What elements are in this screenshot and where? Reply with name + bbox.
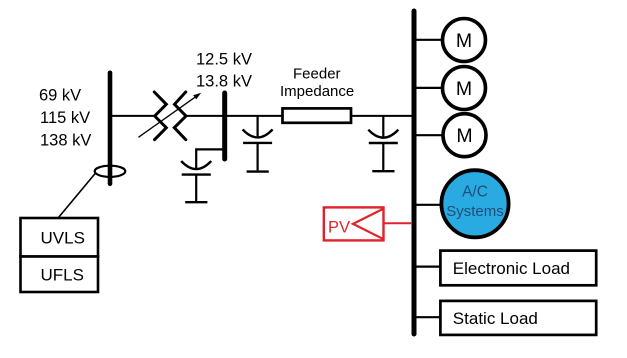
- wire bus 3 to motor M3: [415, 134, 444, 136]
- wire transformer to bus 2: [186, 115, 226, 117]
- capacitor C1: [181, 161, 211, 202]
- motor M3: [443, 114, 486, 157]
- transformer T1 right winding: [174, 92, 186, 140]
- svg-text:138 kV: 138 kV: [40, 131, 91, 149]
- bus 1 (69-138 kV bus): [108, 73, 113, 184]
- feeder impedance box: [283, 108, 352, 122]
- wire bus 3 to A/C systems load: [415, 204, 442, 206]
- bus 2 (12.5-13.8 kV bus): [222, 93, 227, 159]
- wire bus 3 to motor M2: [415, 87, 443, 89]
- wire bus 3 to electronic load: [415, 266, 441, 268]
- svg-text:Static Load: Static Load: [453, 309, 538, 328]
- electronic load box: [440, 251, 596, 286]
- svg-text:12.5 kV: 12.5 kV: [196, 50, 252, 68]
- bus 3 (load bus): [412, 11, 417, 334]
- motor M1: [443, 19, 486, 62]
- wire bus 3 to motor M1: [415, 39, 443, 41]
- svg-text:M: M: [456, 30, 472, 52]
- svg-text:M: M: [456, 125, 472, 147]
- PV arrowhead: [353, 209, 384, 240]
- wire bus 3 to static load: [415, 316, 441, 318]
- svg-text:Impedance: Impedance: [280, 83, 354, 100]
- wire feeder impedance to bus 3: [351, 115, 414, 117]
- wire PV to bus 3 (red): [384, 222, 413, 224]
- A/C systems load: [441, 170, 508, 237]
- svg-text:Systems: Systems: [446, 203, 504, 220]
- svg-text:UVLS: UVLS: [41, 229, 85, 248]
- UVLS box: [21, 218, 99, 257]
- motor M2: [443, 67, 486, 110]
- svg-text:115 kV: 115 kV: [40, 109, 90, 127]
- svg-text:Feeder: Feeder: [293, 66, 341, 83]
- static load box: [440, 301, 596, 335]
- wire bus 2 to capacitor C1: [196, 149, 225, 168]
- capacitor C3: [368, 116, 398, 171]
- wire bus1 to transformer: [110, 115, 155, 117]
- svg-text:A/C: A/C: [462, 183, 488, 200]
- svg-text:13.8 kV: 13.8 kV: [196, 73, 252, 91]
- svg-text:M: M: [456, 78, 472, 100]
- svg-text:UFLS: UFLS: [41, 266, 84, 285]
- ellipse CT on bus 1: [95, 166, 126, 177]
- transformer T1 LTC arrow: [138, 93, 201, 138]
- capacitor C2: [243, 116, 273, 172]
- wire bus 2 to feeder impedance: [224, 115, 283, 117]
- svg-text:69 kV: 69 kV: [39, 87, 81, 105]
- svg-text:Electronic Load: Electronic Load: [453, 259, 570, 278]
- wire CT to UVLS box: [59, 173, 97, 218]
- UFLS box: [21, 257, 99, 293]
- transformer T1 left winding: [154, 92, 166, 140]
- svg-text:PV: PV: [328, 218, 350, 236]
- PV source box: [324, 207, 384, 240]
